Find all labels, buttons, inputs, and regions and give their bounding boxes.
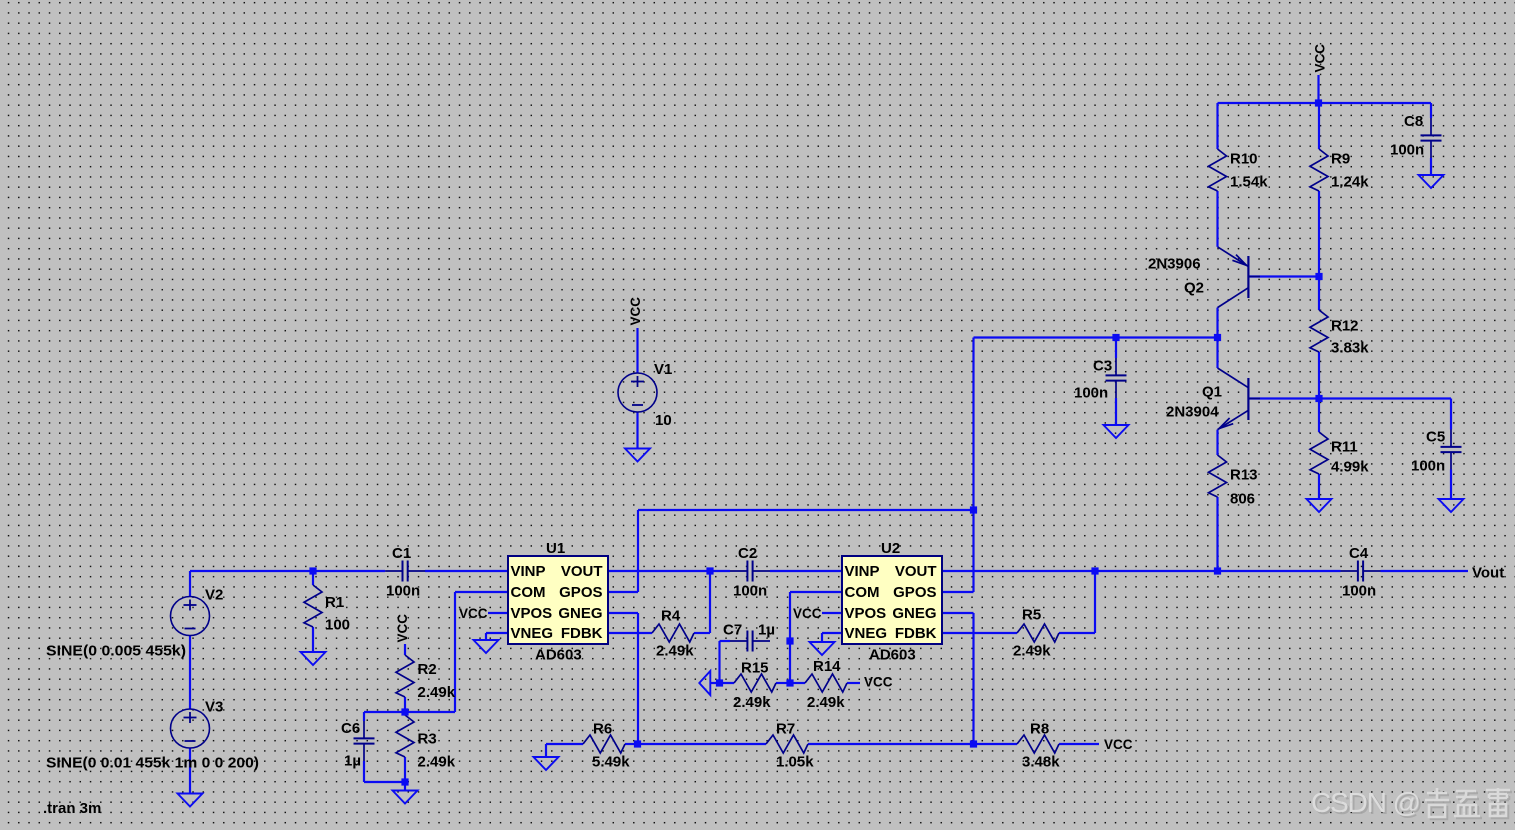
svg-text:GNEG: GNEG bbox=[892, 605, 936, 622]
wire bbox=[942, 612, 974, 614]
svg-text:100n: 100n bbox=[733, 583, 767, 600]
resistor R4 bbox=[652, 608, 694, 660]
wire bbox=[637, 613, 639, 744]
capacitor C2 bbox=[730, 545, 770, 600]
resistor R8 bbox=[1017, 721, 1060, 771]
resistor R5 bbox=[1013, 607, 1059, 660]
wire bbox=[942, 591, 974, 593]
ground at R1 bbox=[301, 652, 326, 665]
wire bbox=[972, 338, 974, 511]
svg-text:VINP: VINP bbox=[511, 563, 546, 580]
svg-text:1.54k: 1.54k bbox=[1230, 174, 1268, 191]
resistor R1 bbox=[304, 585, 350, 634]
svg-text:SINE(0 0.005 455k): SINE(0 0.005 455k) bbox=[46, 643, 186, 660]
wire bbox=[404, 712, 406, 715]
wire bbox=[1318, 103, 1320, 149]
svg-text:100n: 100n bbox=[1074, 385, 1108, 402]
wire bbox=[1318, 352, 1320, 399]
wire bbox=[790, 682, 805, 684]
wire bbox=[404, 697, 406, 712]
wire bbox=[625, 743, 638, 745]
wire bbox=[545, 744, 547, 757]
svg-text:CSDN @: CSDN @ bbox=[1311, 787, 1421, 818]
svg-text:2.49k: 2.49k bbox=[418, 684, 456, 701]
wire bbox=[637, 510, 639, 592]
wire bbox=[636, 412, 638, 448]
svg-text:COM: COM bbox=[511, 584, 546, 601]
net label VCC at R14 bbox=[864, 675, 893, 690]
transistor Q2 2N3906 PNP bbox=[1148, 247, 1260, 308]
svg-text:VNEG: VNEG bbox=[845, 625, 888, 642]
svg-text:R1: R1 bbox=[325, 594, 344, 611]
wire bbox=[1248, 275, 1319, 277]
ground at R6 bbox=[534, 757, 559, 770]
svg-text:2.49k: 2.49k bbox=[418, 754, 456, 771]
wire bbox=[455, 591, 508, 593]
wire bbox=[638, 743, 767, 745]
wire bbox=[313, 570, 385, 572]
svg-text:10: 10 bbox=[655, 412, 672, 429]
svg-text:C3: C3 bbox=[1093, 358, 1112, 375]
svg-text:Vout: Vout bbox=[1472, 565, 1504, 582]
wire bbox=[1094, 571, 1096, 633]
wire bbox=[485, 633, 487, 640]
svg-text:100: 100 bbox=[325, 617, 350, 634]
wire bbox=[1216, 497, 1218, 571]
net label VCC at R2 bbox=[395, 614, 410, 643]
wire bbox=[847, 682, 860, 684]
node junction bbox=[1091, 567, 1098, 574]
wire bbox=[1218, 102, 1432, 104]
svg-text:V2: V2 bbox=[205, 587, 223, 604]
svg-text:VINP: VINP bbox=[845, 563, 880, 580]
net label VCC at U1 VPOS bbox=[459, 606, 488, 621]
svg-text:C2: C2 bbox=[738, 545, 757, 562]
wire bbox=[1115, 398, 1117, 424]
wire bbox=[608, 612, 638, 614]
wire bbox=[312, 627, 314, 652]
wire bbox=[789, 592, 791, 641]
wire bbox=[942, 632, 1017, 634]
svg-text:Q2: Q2 bbox=[1184, 280, 1204, 297]
wire bbox=[720, 640, 731, 642]
svg-text:2.49k: 2.49k bbox=[1013, 643, 1051, 660]
svg-text:SINE(0 0.01 455k 1m 0 0 200): SINE(0 0.01 455k 1m 0 0 200) bbox=[46, 755, 259, 772]
node junction bbox=[716, 679, 723, 686]
resistor R11 bbox=[1310, 432, 1369, 476]
node junction bbox=[309, 567, 316, 574]
ground rotated at C7/R15 bbox=[699, 671, 710, 695]
wire bbox=[404, 757, 406, 782]
svg-text:VCC: VCC bbox=[459, 606, 488, 621]
svg-text:R9: R9 bbox=[1331, 151, 1350, 168]
node junction bbox=[786, 679, 793, 686]
svg-text:C6: C6 bbox=[341, 720, 360, 737]
wire bbox=[364, 711, 405, 713]
svg-text:R2: R2 bbox=[418, 661, 437, 678]
svg-text:VCC: VCC bbox=[395, 614, 410, 643]
wire bbox=[1216, 191, 1218, 247]
svg-text:C7: C7 bbox=[723, 622, 742, 639]
svg-text:1µ: 1µ bbox=[344, 753, 361, 770]
svg-text:1.24k: 1.24k bbox=[1331, 174, 1369, 191]
voltage source V3 bbox=[171, 699, 224, 749]
SINE parameter text V2 bbox=[46, 643, 186, 660]
svg-text:R13: R13 bbox=[1230, 467, 1258, 484]
net label VCC at U2 VPOS bbox=[793, 606, 822, 621]
node junction bbox=[970, 506, 977, 513]
svg-text:3.83k: 3.83k bbox=[1331, 340, 1369, 357]
svg-text:100n: 100n bbox=[1342, 583, 1376, 600]
svg-text:100n: 100n bbox=[386, 583, 420, 600]
wire bbox=[1381, 570, 1469, 572]
svg-text:C8: C8 bbox=[1404, 113, 1423, 130]
capacitor C1 bbox=[385, 545, 425, 600]
svg-text:R3: R3 bbox=[418, 731, 437, 748]
capacitor C4 bbox=[1341, 545, 1381, 600]
ground at R11 bbox=[1307, 499, 1332, 512]
op-amp U1 AD603 bbox=[508, 540, 608, 664]
svg-text:.tran 3m: .tran 3m bbox=[43, 800, 101, 817]
svg-text:VOUT: VOUT bbox=[895, 563, 937, 580]
svg-text:2.49k: 2.49k bbox=[733, 694, 771, 711]
SINE parameter text V3 bbox=[46, 755, 259, 772]
wire bbox=[1216, 338, 1218, 368]
svg-text:FDBK: FDBK bbox=[561, 625, 603, 642]
capacitor C5 bbox=[1411, 429, 1462, 475]
wire bbox=[1059, 632, 1095, 634]
svg-text:1.05k: 1.05k bbox=[776, 754, 814, 771]
wire bbox=[942, 570, 1341, 572]
svg-text:2N3906: 2N3906 bbox=[1148, 256, 1201, 273]
wire bbox=[636, 328, 638, 373]
wire bbox=[1317, 75, 1319, 103]
wire bbox=[608, 570, 730, 572]
svg-text:VNEG: VNEG bbox=[511, 625, 554, 642]
svg-text:VPOS: VPOS bbox=[511, 605, 553, 622]
svg-text:R5: R5 bbox=[1022, 607, 1041, 624]
capacitor C6 bbox=[341, 720, 375, 770]
wire bbox=[808, 743, 974, 745]
wire bbox=[1450, 470, 1452, 499]
op-amp U2 AD603 bbox=[842, 540, 942, 664]
wire bbox=[1450, 399, 1452, 430]
svg-text:2.49k: 2.49k bbox=[656, 643, 694, 660]
svg-text:AD603: AD603 bbox=[535, 647, 582, 664]
wire bbox=[709, 571, 711, 633]
svg-text:R15: R15 bbox=[741, 660, 769, 677]
ground at C3 bbox=[1104, 425, 1129, 438]
capacitor C8 bbox=[1390, 113, 1442, 159]
voltage source V2 bbox=[171, 587, 224, 636]
svg-text:VCC: VCC bbox=[864, 675, 893, 690]
voltage source V1 bbox=[618, 361, 672, 429]
ground at U1 VNEG bbox=[474, 640, 499, 653]
watermark CSDN bbox=[1311, 787, 1512, 820]
resistor R3 bbox=[396, 715, 456, 771]
svg-text:R10: R10 bbox=[1230, 151, 1258, 168]
resistor R2 bbox=[396, 655, 456, 701]
wire bbox=[363, 761, 365, 782]
node junction bbox=[401, 708, 408, 715]
resistor R7 bbox=[766, 721, 814, 771]
wire bbox=[546, 743, 583, 745]
svg-text:1µ: 1µ bbox=[758, 622, 775, 639]
wire bbox=[822, 632, 842, 634]
svg-text:VCC: VCC bbox=[1104, 737, 1133, 752]
svg-text:VCC: VCC bbox=[1313, 44, 1328, 73]
wire bbox=[1115, 338, 1117, 359]
wire bbox=[972, 613, 974, 744]
svg-text:R14: R14 bbox=[813, 658, 841, 675]
wire bbox=[972, 510, 974, 592]
wire bbox=[1059, 743, 1099, 745]
wire bbox=[694, 632, 710, 634]
svg-text:Q1: Q1 bbox=[1202, 384, 1222, 401]
svg-text:GPOS: GPOS bbox=[893, 584, 936, 601]
capacitor C7 bbox=[723, 622, 775, 652]
svg-text:C1: C1 bbox=[392, 545, 411, 562]
svg-text:4.99k: 4.99k bbox=[1331, 459, 1369, 476]
wire bbox=[1248, 397, 1319, 399]
wire bbox=[1430, 103, 1432, 118]
resistor R14 bbox=[805, 658, 847, 711]
svg-text:R11: R11 bbox=[1331, 439, 1358, 456]
resistor R15 bbox=[733, 660, 776, 712]
svg-text:VCC: VCC bbox=[628, 297, 643, 326]
node junction bbox=[1315, 273, 1322, 280]
wire bbox=[608, 591, 638, 593]
wire bbox=[974, 336, 1218, 338]
wire bbox=[189, 748, 191, 793]
svg-text:100n: 100n bbox=[1390, 142, 1424, 159]
wire bbox=[364, 781, 405, 783]
svg-text:3.48k: 3.48k bbox=[1022, 754, 1060, 771]
net label VCC top bbox=[1313, 44, 1328, 73]
net label VCC at V1 bbox=[628, 297, 643, 326]
wire bbox=[790, 591, 842, 593]
svg-text:GPOS: GPOS bbox=[559, 584, 602, 601]
svg-text:FDBK: FDBK bbox=[895, 625, 937, 642]
resistor R10 bbox=[1209, 149, 1269, 191]
svg-text:COM: COM bbox=[845, 584, 880, 601]
spice directive .tran bbox=[43, 800, 101, 817]
svg-text:5.49k: 5.49k bbox=[592, 754, 630, 771]
node junction bbox=[401, 778, 408, 785]
wire bbox=[608, 632, 652, 634]
wire bbox=[1216, 103, 1218, 149]
resistor R13 bbox=[1209, 455, 1258, 508]
wire bbox=[190, 570, 313, 572]
svg-text:2.49k: 2.49k bbox=[807, 694, 845, 711]
wire bbox=[770, 570, 842, 572]
wire bbox=[718, 641, 720, 683]
svg-text:V1: V1 bbox=[654, 361, 672, 378]
resistor R12 bbox=[1310, 310, 1369, 357]
wire bbox=[1318, 191, 1320, 277]
transistor Q1 2N3904 NPN bbox=[1166, 368, 1260, 430]
svg-text:2N3904: 2N3904 bbox=[1166, 404, 1219, 421]
svg-text:R7: R7 bbox=[776, 721, 795, 738]
ground at R3/C6 bbox=[393, 791, 418, 804]
wire bbox=[363, 712, 365, 721]
node junction bbox=[1315, 395, 1322, 402]
ground at V3 bbox=[178, 794, 203, 807]
wire bbox=[189, 636, 191, 710]
wire bbox=[1216, 430, 1218, 455]
svg-text:100n: 100n bbox=[1411, 458, 1445, 475]
wire bbox=[189, 571, 191, 597]
svg-text:VOUT: VOUT bbox=[561, 563, 603, 580]
wire bbox=[1318, 399, 1320, 433]
wire bbox=[486, 632, 508, 634]
resistor R6 bbox=[583, 721, 630, 771]
svg-text:R6: R6 bbox=[593, 721, 612, 738]
svg-text:806: 806 bbox=[1230, 491, 1255, 508]
wire bbox=[776, 682, 790, 684]
net label VCC at R8 bbox=[1104, 737, 1133, 752]
wire bbox=[711, 682, 735, 684]
ground at C5 bbox=[1439, 499, 1464, 512]
node junction bbox=[1315, 99, 1322, 106]
node junction bbox=[1214, 334, 1221, 341]
svg-text:C5: C5 bbox=[1426, 429, 1445, 446]
wire bbox=[974, 743, 1018, 745]
svg-text:AD603: AD603 bbox=[869, 647, 916, 664]
svg-text:C4: C4 bbox=[1349, 545, 1369, 562]
wire bbox=[1319, 397, 1451, 399]
svg-text:U2: U2 bbox=[881, 540, 900, 557]
net label Vout bbox=[1472, 565, 1504, 582]
wire bbox=[405, 711, 455, 713]
svg-text:GNEG: GNEG bbox=[558, 605, 602, 622]
resistor R9 bbox=[1310, 149, 1369, 191]
ground at V1 bbox=[625, 449, 650, 462]
svg-text:R4: R4 bbox=[661, 608, 681, 625]
wire bbox=[789, 641, 791, 683]
wire bbox=[638, 509, 974, 511]
node junction bbox=[970, 740, 977, 747]
wire bbox=[404, 782, 406, 790]
wire bbox=[1318, 474, 1320, 499]
wire bbox=[425, 570, 508, 572]
node junction bbox=[1112, 334, 1119, 341]
capacitor C3 bbox=[1074, 358, 1127, 402]
ground at C8 bbox=[1419, 175, 1444, 188]
node junction bbox=[706, 567, 713, 574]
svg-text:V3: V3 bbox=[205, 699, 223, 716]
svg-text:R8: R8 bbox=[1030, 721, 1049, 738]
ground at U2 VNEG bbox=[810, 642, 835, 655]
node junction bbox=[634, 740, 641, 747]
node junction bbox=[1214, 567, 1221, 574]
wire bbox=[822, 612, 842, 614]
svg-text:U1: U1 bbox=[546, 540, 565, 557]
wire bbox=[1430, 158, 1432, 175]
wire bbox=[821, 633, 823, 642]
wire bbox=[1216, 308, 1218, 338]
wire bbox=[312, 571, 314, 585]
wire bbox=[454, 592, 456, 712]
svg-text:R12: R12 bbox=[1331, 318, 1359, 335]
wire bbox=[1318, 277, 1320, 311]
wire bbox=[404, 644, 406, 655]
node junction bbox=[786, 637, 793, 644]
svg-text:VCC: VCC bbox=[793, 606, 822, 621]
wire bbox=[488, 612, 508, 614]
svg-text:VPOS: VPOS bbox=[845, 605, 887, 622]
